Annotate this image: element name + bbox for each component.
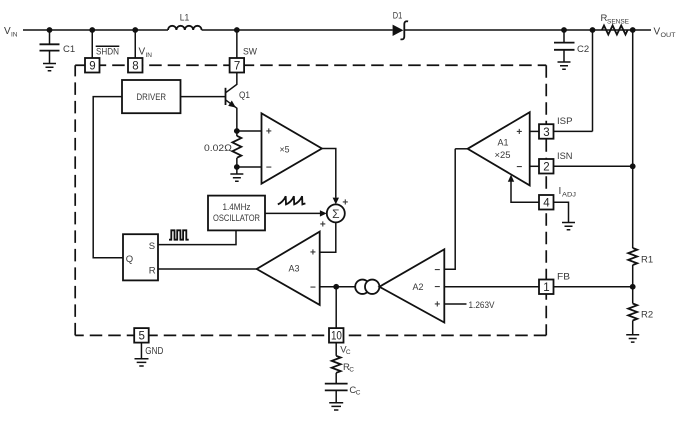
transistor Q1: [226, 88, 251, 131]
resistor R2: [628, 304, 653, 321]
node VOUT label: [654, 27, 676, 40]
op-amp x5 current sense amplifier: [262, 113, 322, 183]
junction pin 9 riser at rail: [89, 27, 95, 33]
node VIN label: [4, 26, 18, 39]
wire sense top to x5 plus: [237, 130, 262, 132]
wire pin4 to A1 bias arrow: [511, 181, 539, 203]
diode D1 (Schottky): [393, 11, 409, 40]
ground under pin 5: [135, 359, 149, 366]
svg-text:S: S: [149, 241, 155, 252]
oscillator block: [208, 196, 265, 231]
pin 9 SHDN: [85, 46, 119, 72]
pin 5 GND: [134, 328, 163, 357]
pin 2 ISN: [539, 151, 573, 174]
wire A2 plus to reference: [444, 303, 466, 305]
svg-text:9: 9: [89, 61, 95, 73]
summing junction: [320, 198, 349, 231]
junction ISN rail: [630, 163, 636, 169]
ground under R2: [626, 335, 639, 342]
svg-text:I: I: [559, 186, 562, 197]
wire pin 8 riser: [134, 30, 136, 58]
svg-text:GND: GND: [145, 345, 163, 357]
svg-text:10: 10: [331, 331, 342, 343]
resistor 0.02 ohm: [204, 131, 241, 167]
resistor R1: [628, 248, 653, 266]
wire top rail from D1 to VOUT: [404, 29, 651, 31]
svg-text:C: C: [346, 349, 351, 356]
svg-text:Σ: Σ: [332, 207, 339, 221]
svg-text:4: 4: [543, 198, 550, 210]
sawtooth waveform glyph: [278, 196, 306, 204]
inductor L1: [168, 13, 202, 31]
wire A1 output: [455, 148, 467, 150]
svg-text:−: −: [310, 282, 316, 293]
svg-text:5: 5: [138, 331, 144, 343]
wire latch R to A3 output: [158, 268, 257, 270]
DRIVER block: [122, 80, 181, 113]
svg-text:+: +: [320, 220, 326, 231]
pin 1 FB: [539, 271, 570, 294]
svg-text:×5: ×5: [280, 145, 290, 156]
wire pin 9 riser: [91, 30, 93, 58]
svg-text:OSCILLATOR: OSCILLATOR: [213, 213, 260, 224]
junction FB rail: [630, 284, 636, 290]
square pulse waveform glyph: [169, 230, 189, 239]
wire pin5 to ground: [140, 343, 142, 359]
wire right rail down to R1: [632, 30, 634, 248]
wire between R1 and R2: [632, 265, 634, 304]
svg-text:+: +: [310, 247, 316, 258]
svg-text:ISN: ISN: [557, 151, 573, 162]
node Q1 emitter junction: [234, 128, 240, 134]
wire top rail from L1 to D1: [202, 29, 393, 31]
pin 8 VIN: [128, 47, 152, 73]
capacitor C1: [40, 30, 76, 64]
pin 7 SW: [230, 47, 257, 73]
svg-text:C: C: [356, 390, 361, 397]
svg-text:+: +: [266, 127, 272, 138]
svg-text:C1: C1: [63, 44, 75, 55]
svg-text:SHDN: SHDN: [96, 47, 119, 58]
svg-text:SENSE: SENSE: [607, 19, 630, 26]
junction pin 8 riser at rail: [132, 27, 138, 33]
svg-text:−: −: [516, 162, 522, 173]
wire latch Q to driver: [93, 97, 123, 258]
svg-text:×25: ×25: [495, 150, 511, 161]
capacitor C2: [554, 30, 589, 62]
svg-text:8: 8: [132, 61, 138, 73]
wire RC to CC: [335, 373, 337, 384]
wire pin7 to Q1 collector: [226, 73, 237, 93]
svg-text:V: V: [139, 47, 146, 58]
svg-text:OUT: OUT: [661, 32, 676, 39]
ground under CC: [329, 403, 343, 410]
svg-text:FB: FB: [557, 271, 570, 282]
svg-text:2: 2: [543, 162, 549, 174]
wire A1 plus to pin 3: [530, 130, 539, 132]
IC boundary dashed box: [75, 65, 546, 335]
wire top rail from VIN to L1: [23, 29, 168, 31]
wire VC node down to pin 10: [335, 287, 337, 328]
svg-text:V: V: [654, 27, 661, 38]
node sense resistor bottom junction: [234, 164, 240, 170]
svg-text:1.4MHz: 1.4MHz: [223, 202, 251, 213]
wire pin2 to right rail: [554, 165, 633, 167]
svg-text:1.263V: 1.263V: [469, 300, 496, 311]
wire pin3 to ISP riser: [554, 130, 593, 132]
svg-text:Q: Q: [126, 254, 133, 265]
svg-text:ADJ: ADJ: [562, 192, 576, 199]
pin 4 IADJ: [539, 186, 576, 210]
junction SW node at rail: [234, 27, 240, 33]
wire R2 to ground: [632, 321, 634, 335]
svg-text:1: 1: [543, 282, 549, 294]
svg-text:R: R: [149, 266, 156, 277]
junction ISP riser at rail: [590, 27, 596, 33]
ground under C1: [43, 64, 56, 71]
svg-text:0.02Ω: 0.02Ω: [204, 143, 232, 154]
svg-text:3: 3: [543, 127, 549, 139]
latch SR flip-flop: [123, 234, 158, 280]
svg-text:+: +: [516, 127, 522, 138]
wire ISP riser: [592, 30, 594, 131]
svg-text:ISP: ISP: [557, 116, 573, 127]
junction VOUT rail corner: [630, 27, 636, 33]
ground under sense resistor: [230, 174, 243, 181]
svg-text:A3: A3: [289, 264, 300, 275]
error amplifier A2: [379, 249, 444, 322]
svg-text:SW: SW: [243, 47, 257, 58]
svg-text:A2: A2: [413, 282, 424, 293]
svg-text:−: −: [266, 163, 272, 174]
pin 3 ISP: [539, 116, 573, 139]
svg-text:IN: IN: [11, 32, 18, 39]
svg-text:IN: IN: [146, 52, 153, 59]
wire to ground below sense resistor: [236, 167, 238, 174]
svg-text:+: +: [434, 300, 440, 311]
resistor RSENSE: [601, 13, 630, 35]
wire oscillator to summer: [265, 212, 320, 214]
wire pin1 to right rail: [554, 286, 633, 288]
wire oscillator bottom to latch S: [158, 230, 236, 244]
wire CC to ground: [335, 390, 337, 402]
comparator A3: [257, 232, 320, 305]
svg-text:−: −: [434, 265, 440, 276]
node VC junction: [333, 284, 339, 290]
wire x5 output to summer: [322, 149, 336, 198]
wire sense bottom to x5 minus: [237, 166, 262, 168]
svg-text:7: 7: [234, 61, 240, 73]
current mirror symbol: [355, 280, 379, 294]
wire pin 7 riser: [236, 30, 238, 58]
svg-text:C2: C2: [577, 44, 589, 55]
junction C1 at rail: [47, 27, 53, 33]
svg-text:L1: L1: [180, 13, 190, 24]
wire A3 minus input node: [320, 286, 356, 288]
wire pin4 right to ground: [554, 202, 569, 222]
wire driver to Q1 base: [181, 96, 226, 98]
svg-text:A1: A1: [498, 138, 509, 149]
svg-text:V: V: [4, 26, 11, 37]
svg-text:DRIVER: DRIVER: [137, 92, 167, 103]
wire pin10 down to RC: [335, 343, 337, 356]
resistor RC: [332, 356, 355, 374]
wire A2 middle minus to pin 1: [444, 286, 539, 288]
junction C2 at rail: [561, 27, 567, 33]
capacitor CC: [325, 384, 361, 397]
wire A1 minus to pin 2: [530, 165, 539, 167]
svg-text:R1: R1: [641, 255, 653, 266]
pin 10 VC: [329, 328, 351, 356]
ground at IADJ: [562, 223, 575, 230]
ground under C2: [558, 62, 571, 69]
current sense amplifier A1: [468, 112, 530, 185]
svg-text:+: +: [342, 198, 348, 209]
svg-text:Q1: Q1: [239, 90, 250, 101]
svg-text:D1: D1: [393, 11, 403, 22]
svg-text:C: C: [349, 367, 354, 374]
wire A2 top minus to A1 output: [444, 149, 455, 269]
svg-text:−: −: [434, 282, 440, 293]
wire summer output to A3 plus input: [320, 222, 336, 252]
svg-text:R2: R2: [641, 310, 653, 321]
